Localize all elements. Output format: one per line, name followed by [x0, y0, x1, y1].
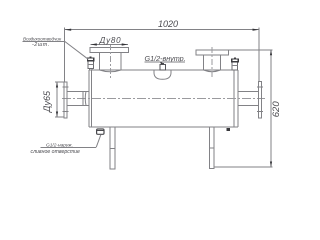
extension line right of 1020 [258, 27, 260, 81]
svg-text:Ду80: Ду80 [99, 36, 122, 45]
arrowheads 620 [270, 50, 272, 56]
left leg joint line [110, 148, 115, 150]
air vent fitting left: knob [90, 57, 92, 58]
svg-text:1020: 1020 [158, 19, 178, 29]
right flange bolt tick lower [257, 111, 263, 113]
label air vent underline [23, 40, 65, 42]
top right nozzle neck left edge [203, 55, 205, 70]
label drain underline [41, 146, 97, 148]
dimension 620 [214, 50, 273, 167]
arrowheads Ду80 [91, 43, 97, 45]
right flange bolt tick upper [257, 86, 263, 88]
svg-text:-2шт.: -2шт. [32, 42, 50, 48]
top right nozzle centerline [211, 47, 213, 78]
label air vent leader [65, 41, 89, 59]
dimension Ду80 [91, 44, 129, 46]
G1/2 nipple cap mark [161, 63, 164, 64]
vessel left end wall [88, 70, 90, 127]
svg-text:620: 620 [271, 101, 282, 118]
vessel shell top line [89, 69, 238, 71]
bottom right plug mark [226, 128, 230, 131]
top left nozzle saddle curve [100, 70, 122, 72]
left side flange Ду65 plate [64, 82, 67, 118]
label G1/2-внутр underline [145, 61, 186, 63]
top left nozzle centerline [109, 44, 111, 78]
right support leg [209, 127, 214, 169]
top left nozzle neck left edge [99, 53, 101, 70]
top right nozzle saddle curve [204, 70, 221, 72]
extension line left of 1020 [64, 27, 66, 82]
vessel right head seam [233, 70, 235, 127]
svg-text:Ду65: Ду65 [42, 90, 52, 113]
left nozzle pipe top edge [67, 90, 89, 92]
G1/2 internal boss dome [154, 70, 171, 79]
label drain leader [96, 135, 101, 148]
air vent fitting right: body [232, 62, 238, 70]
air vent fitting left: stub [88, 68, 90, 70]
extension line top of Ду65 [55, 81, 64, 83]
right side flange plate [259, 82, 262, 119]
extension line bottom of Ду65 [55, 116, 64, 118]
vessel right end wall [237, 70, 239, 127]
arrowheads 1020 [65, 29, 72, 31]
top right nozzle neck right edge [220, 55, 222, 70]
top left nozzle flange Ду80 [90, 48, 129, 53]
air vent fitting left: body [88, 61, 94, 69]
label G1/2-внутр leader arrow [161, 62, 162, 64]
air vent fitting left: cap [88, 58, 94, 61]
left nozzle pipe bottom edge [67, 104, 89, 106]
air vent fitting right: knob [234, 58, 236, 59]
air vent fitting right: cap [232, 59, 238, 62]
left support leg [110, 127, 115, 169]
left pipe weld line 1 [82, 91, 84, 105]
dimension 1020 [65, 27, 259, 82]
extension line top of 620 [229, 49, 273, 51]
bottom drain fitting [97, 129, 104, 134]
vessel shell bottom line [89, 126, 238, 128]
left flange bolt tick upper [63, 86, 69, 88]
G1/2 nipple [160, 65, 165, 70]
right nozzle pipe bottom edge [238, 104, 259, 106]
dimension Ду65 [55, 82, 64, 117]
right leg joint line [209, 147, 214, 149]
svg-text:сливное отверстие: сливное отверстие [31, 149, 81, 155]
vessel left head seam [91, 70, 93, 127]
svg-text:Воздухоотводчик: Воздухоотводчик [23, 36, 62, 41]
top left nozzle neck right edge [120, 53, 122, 70]
vessel horizontal centerline [62, 97, 265, 99]
bottom drain inner line [97, 130, 104, 132]
left flange bolt tick lower [63, 111, 69, 113]
arrowheads Ду65 [56, 82, 58, 88]
extension line bottom of 620 [214, 166, 273, 168]
top right nozzle flange [196, 50, 229, 55]
right nozzle pipe top edge [238, 90, 259, 92]
left pipe weld line 2 [84, 91, 87, 105]
